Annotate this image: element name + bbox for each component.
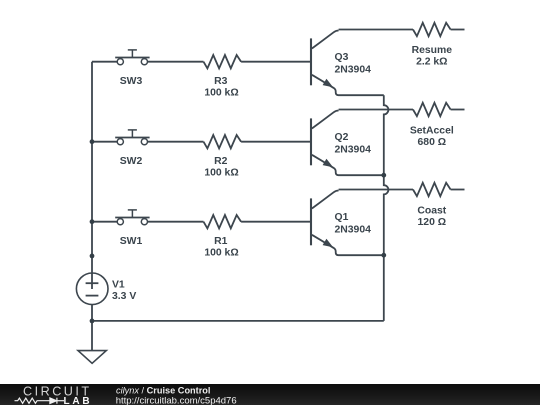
transistor Q2 [311,111,339,176]
wire right emitter rail with hops [384,95,389,321]
resistor R2 [204,135,242,148]
wire left rail [91,62,93,273]
wire R2 to Q2 base [241,141,311,143]
footer bar [0,384,540,405]
ground [78,351,106,364]
wire SW2 left [92,141,117,143]
node junction dot V1 top [90,254,95,259]
wire Q3 collector to Resume [339,29,413,31]
transistor Q3 [311,31,339,96]
wire R3 to Q3 base [241,61,311,63]
wire Q2 emitter to rail [339,174,384,176]
node junction dot Q2 emitter [381,173,386,178]
wire SW2 to R2 [148,141,204,143]
wire SW3 to R3 [148,61,204,63]
voltage source V1 [76,273,108,321]
wire SW3 left [92,61,117,63]
logo resistor-diode squiggle [15,398,65,404]
switch SW2 [115,130,149,145]
switch SW1 [115,210,149,225]
wire Q1 collector to Coast [339,189,413,191]
wire Resume stub [451,29,465,31]
wire SW1 to R1 [148,221,204,223]
wire Coast stub [451,189,465,191]
node junction dot SW2 tap [90,139,95,144]
label Resume [412,45,453,67]
resistor R1 [204,215,242,228]
resistor Resume [413,23,451,36]
label V1 [112,279,136,302]
label SetAccel [410,126,454,148]
label Q2 [335,132,372,155]
wire Q2 collector to SetAccel [339,109,413,111]
label R3 [204,76,238,98]
wire Q1 emitter to rail [339,254,384,256]
node junction dot V1 bottom [90,319,95,324]
resistor R3 [204,55,242,68]
wire SW1 left [92,221,117,223]
wire SetAccel stub [451,109,465,111]
label Q3 [335,52,372,75]
wire R1 to Q1 base [241,221,311,223]
resistor SetAccel [413,103,451,116]
wire Q3 emitter to rail [339,94,384,96]
svg-text:cilynx / Cruise Control: cilynx / Cruise Control [116,386,210,396]
wire ground stem [91,321,93,351]
node junction dot Q1 emitter [381,253,386,258]
svg-text:LAB: LAB [64,396,93,405]
wire bottom rail [92,320,384,322]
resistor Coast [413,183,451,196]
node junction dot SW1 tap [90,219,95,224]
switch SW3 [115,50,149,65]
svg-text:http://circuitlab.com/c5p4d76: http://circuitlab.com/c5p4d76 [116,395,237,405]
label R1 [204,236,238,258]
label Coast [417,206,446,228]
label R2 [204,156,238,178]
transistor Q1 [311,191,339,256]
label Q1 [335,212,372,235]
